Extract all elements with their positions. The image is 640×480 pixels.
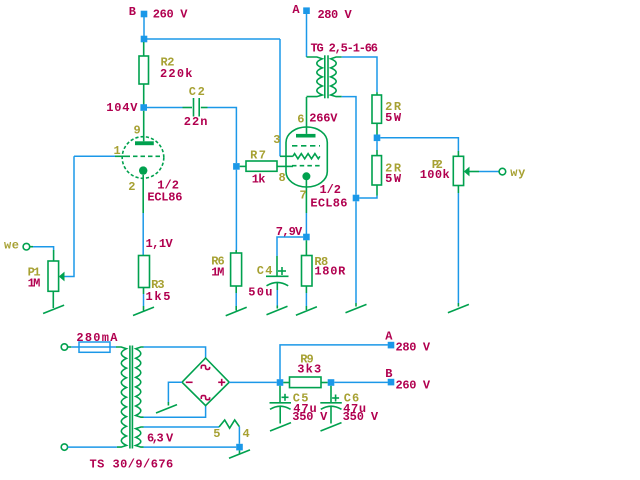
resistor R3: [139, 256, 150, 311]
terminal wy: [499, 168, 506, 175]
node grid junction: [233, 163, 240, 170]
svg-text:5: 5: [213, 427, 220, 441]
svg-text:220k: 220k: [160, 67, 193, 81]
ground R8: [296, 307, 317, 315]
P2 wiper arrow: [464, 167, 470, 177]
svg-text:1k: 1k: [252, 172, 266, 186]
svg-text:260 V: 260 V: [396, 379, 431, 393]
node B rail junction: [141, 36, 148, 43]
wire C2 to grid junction: [208, 108, 237, 164]
wire C6 node to B right: [334, 381, 388, 383]
triode grid dashes: [126, 155, 162, 157]
wire we to P1: [30, 247, 54, 261]
ground heater: [229, 450, 250, 458]
svg-text:5W: 5W: [385, 172, 402, 186]
capacitor C6: [320, 386, 342, 424]
capacitor C4: [266, 256, 289, 309]
triode cathode lead: [142, 175, 144, 213]
transformer TG primary winding: [307, 57, 323, 97]
potentiometer P2: [453, 151, 463, 186]
ground P1: [43, 305, 64, 313]
svg-text:C2: C2: [189, 85, 205, 99]
ground R3: [133, 307, 154, 315]
node heater ground: [236, 444, 243, 451]
svg-text:50u: 50u: [248, 285, 272, 299]
pentode cathode dot: [302, 172, 310, 180]
fuse wire through: [71, 346, 116, 348]
svg-text:4: 4: [243, 427, 250, 441]
node C5 junction: [277, 379, 284, 386]
wire suppressor stub: [280, 155, 293, 157]
svg-text:100k: 100k: [420, 168, 450, 182]
svg-text:R7: R7: [250, 149, 266, 163]
pentode screen grid dashes: [292, 145, 320, 147]
svg-text:350 V: 350 V: [343, 410, 379, 424]
heater filament 5-4: [219, 420, 239, 428]
node C6 junction: [328, 379, 335, 386]
svg-text:wy: wy: [510, 166, 525, 180]
wire triode grid: [74, 155, 115, 157]
node B top: [141, 11, 148, 18]
node A top: [303, 7, 310, 14]
wire B rail horizontal: [144, 38, 280, 40]
triode cathode dot: [139, 166, 147, 174]
wire node to C4: [277, 237, 303, 256]
transformer TG core: [325, 55, 328, 98]
svg-text:260 V: 260 V: [153, 8, 188, 22]
svg-text:TS 30/9/676: TS 30/9/676: [90, 458, 174, 472]
svg-text:1,1V: 1,1V: [146, 237, 174, 251]
wire A node down: [306, 13, 308, 57]
plus C4: [278, 267, 286, 275]
ground output junction: [346, 304, 367, 312]
wire bridge plus to C5 node: [229, 381, 277, 383]
wire wiper to wy: [470, 171, 500, 173]
wire TG secondary bottom drop: [342, 97, 356, 195]
wire R6 to ground: [235, 293, 237, 311]
svg-text:6,3 V: 6,3 V: [147, 431, 174, 445]
P1 wiper arrow: [59, 272, 65, 282]
pentode V1B outline: [286, 127, 327, 187]
node output junction: [353, 195, 360, 202]
terminal we: [23, 243, 30, 250]
triode anode bar: [135, 141, 154, 145]
svg-text:180R: 180R: [314, 264, 346, 278]
svg-text:1M: 1M: [211, 266, 224, 280]
resistor R9: [283, 377, 327, 388]
resistor R8: [302, 240, 313, 310]
wire node to P2: [380, 138, 458, 151]
terminal mains bottom: [61, 444, 67, 450]
wire B node down: [143, 15, 145, 39]
svg-text:280 V: 280 V: [318, 8, 353, 22]
wire triode cathode to R3: [142, 213, 144, 256]
bridge AC mark bottom: [201, 396, 209, 400]
wire C5 node up to A rail: [280, 345, 388, 379]
svg-text:B: B: [129, 5, 136, 19]
wire screen grid drop: [279, 39, 281, 156]
svg-text:9: 9: [134, 124, 141, 138]
ground C4: [267, 306, 288, 314]
resistor R6: [231, 250, 242, 293]
svg-text:5W: 5W: [385, 111, 402, 125]
wire heater down: [238, 427, 240, 444]
wire heater node to ground: [239, 450, 241, 453]
ground R6: [226, 307, 247, 315]
svg-text:3k3: 3k3: [297, 362, 321, 376]
svg-text:280 V: 280 V: [396, 340, 431, 354]
pentode anode bar: [296, 134, 316, 138]
pentode suppressor zigzag: [293, 154, 320, 159]
pentode control grid dashes: [292, 165, 320, 167]
ground C5: [270, 423, 291, 431]
bridge minus: [186, 381, 193, 383]
svg-text:7: 7: [300, 188, 307, 202]
pentode anode lead: [306, 97, 308, 134]
svg-text:266V: 266V: [309, 112, 338, 126]
fuse 280mA box: [79, 342, 110, 352]
resistor 2R 5W lower: [372, 141, 382, 195]
svg-text:ECL86: ECL86: [147, 191, 182, 205]
wire pentode cathode to node: [305, 213, 307, 234]
transformer TG secondary winding: [331, 57, 342, 97]
wire R6 drop: [235, 170, 237, 250]
wire output junction to ground: [355, 201, 357, 306]
ground bridge: [156, 405, 177, 413]
svg-text:3: 3: [273, 133, 280, 147]
resistor R2: [139, 42, 149, 105]
wire bridge minus to ground: [168, 382, 182, 405]
wire mains top stub: [68, 346, 72, 348]
node cathode 7.9V: [303, 234, 310, 241]
pentode cathode lead: [305, 180, 307, 213]
svg-text:22n: 22n: [184, 115, 208, 129]
svg-text:280mA: 280mA: [76, 331, 118, 345]
wire 6.3V bottom: [144, 446, 237, 448]
svg-text:2: 2: [128, 180, 135, 194]
svg-text:104V: 104V: [106, 101, 138, 115]
ground P2: [448, 304, 469, 312]
bridge AC mark top: [201, 365, 209, 369]
bridge rectifier: [182, 358, 229, 406]
transformer TS primary winding: [116, 347, 126, 447]
ground C6: [321, 423, 342, 431]
svg-text:A: A: [385, 329, 393, 343]
wire P2 bottom: [457, 186, 459, 307]
node between 2R resistors: [374, 135, 381, 142]
svg-text:6: 6: [297, 112, 304, 126]
wire HT bottom to bridge: [144, 406, 206, 418]
svg-text:B: B: [385, 367, 392, 381]
wire mains bottom: [68, 446, 117, 448]
svg-text:TG 2,5-1-66: TG 2,5-1-66: [311, 42, 379, 56]
svg-text:we: we: [4, 239, 19, 253]
potentiometer P1: [48, 261, 59, 291]
triode V1A outline: [122, 137, 164, 179]
transformer TS 6.3V winding: [136, 427, 144, 447]
svg-text:ECL86: ECL86: [310, 197, 347, 211]
wire P1 bottom: [52, 291, 54, 308]
wire 2R lower to output node: [359, 196, 377, 199]
terminal mains top: [61, 344, 67, 350]
svg-text:350 V: 350 V: [292, 410, 328, 424]
resistor R7: [240, 161, 293, 171]
svg-text:8: 8: [279, 171, 286, 185]
triode grid stub: [115, 155, 126, 157]
capacitor C2: [183, 98, 208, 117]
transformer TS HT secondary winding: [136, 347, 144, 417]
wire C2 left: [147, 107, 183, 109]
node A right: [388, 342, 395, 349]
wire 6.3V to heater: [144, 426, 220, 428]
capacitor C5: [270, 386, 292, 424]
wire TG secondary top to 2R: [342, 57, 377, 92]
plus C5: [282, 394, 289, 401]
svg-text:1k5: 1k5: [146, 290, 171, 304]
svg-text:C4: C4: [257, 264, 273, 278]
plus C6: [332, 395, 339, 402]
wire grid drop to P1 wiper: [64, 156, 74, 276]
bridge plus: [218, 379, 225, 386]
resistor 2R 5W upper: [372, 92, 382, 134]
svg-text:1/2: 1/2: [320, 183, 342, 197]
node B right: [388, 379, 395, 386]
svg-text:A: A: [292, 3, 300, 17]
triode anode lead: [143, 111, 145, 142]
svg-text:1M: 1M: [28, 277, 41, 291]
wire HT top to bridge: [144, 347, 206, 358]
transformer TS core: [130, 346, 133, 449]
node 104V: [140, 104, 147, 111]
